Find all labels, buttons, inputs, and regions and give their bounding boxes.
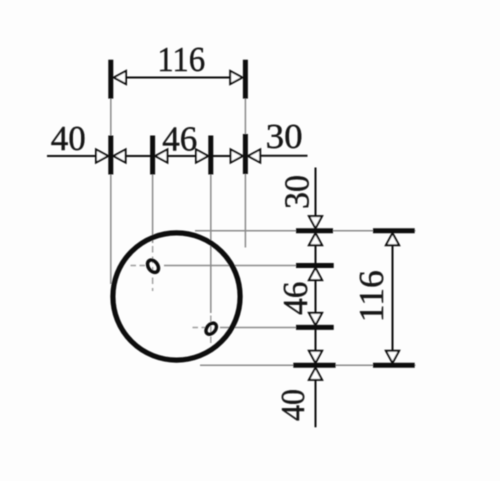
wire t3 to 30 arrow: [212, 155, 231, 157]
dim line v116: [392, 245, 394, 350]
svg-text:40: 40: [275, 389, 312, 421]
tick t1: [108, 136, 113, 175]
circle (main outline): [113, 233, 240, 360]
arrow down at tv4: [309, 351, 322, 363]
arrow v40 up at tv4: [309, 368, 322, 380]
tick t3: [208, 136, 213, 175]
arrow at t1 right: [113, 149, 125, 162]
leader v40 dim: [315, 380, 317, 427]
tick v116 top: [373, 228, 415, 233]
arrow 40 at t1 left: [96, 149, 108, 162]
arrow up at tv1: [309, 233, 322, 245]
extension line t2 down to hole1: [152, 174, 154, 243]
arrow right of 116 dim: [230, 71, 242, 84]
tick tv4: [293, 363, 335, 368]
arrow v30 down at tv1: [309, 216, 322, 228]
tick t4: [243, 134, 248, 174]
centerline left of hole1: [131, 265, 147, 267]
svg-text:116: 116: [353, 270, 391, 322]
arrow left of 116 dim: [114, 71, 126, 84]
leader 40 dim: [47, 155, 97, 157]
svg-text:116: 116: [157, 41, 205, 79]
centerline t2 through hole1: [152, 246, 154, 291]
tick top-right (116 dim): [243, 60, 248, 99]
dim line 116 top: [126, 77, 230, 79]
leader v30 dim: [315, 168, 317, 217]
wire tv3 to v40 arrow: [315, 329, 317, 352]
dim line 46: [167, 155, 196, 157]
wire tv1 arrow to tv2: [315, 245, 317, 264]
tick v116 bottom: [373, 363, 415, 368]
extension line circle bottom to right ticks: [200, 364, 416, 366]
tick tv1: [296, 228, 333, 233]
extension line hole1 to right ticks: [164, 265, 334, 267]
centerline left of hole2: [193, 327, 206, 329]
extension line left column t1: [110, 99, 112, 285]
arrow v46 down at tv3: [309, 313, 322, 325]
arrow 46 at t3: [196, 149, 208, 162]
svg-text:30: 30: [279, 175, 317, 209]
leader 30 dim: [260, 155, 307, 157]
tick tv3: [296, 325, 334, 330]
svg-text:40: 40: [51, 120, 86, 158]
extension line t3 down to hole2: [210, 174, 212, 313]
hole H2: [204, 321, 219, 336]
arrow at t4 right: [248, 149, 260, 162]
extension line circle top to right ticks: [195, 230, 416, 232]
tick t2: [150, 136, 155, 175]
hole H1: [145, 258, 161, 275]
extension line right column t4: [244, 99, 246, 248]
tick tv2: [296, 263, 334, 268]
svg-text:46: 46: [162, 121, 197, 159]
tick top-left (116 dim): [108, 60, 113, 99]
svg-text:46: 46: [277, 282, 315, 315]
arrow v46 up at tv2: [309, 268, 322, 280]
wire t1 arrow to t2: [126, 155, 152, 157]
centerline t3 through hole2: [210, 316, 212, 346]
arrow v116 down: [386, 351, 399, 363]
arrow 46 at t2: [155, 149, 167, 162]
arrow v116 up: [386, 233, 399, 245]
extension line hole2 to right ticks: [220, 327, 334, 329]
svg-text:30: 30: [266, 118, 303, 156]
arrow 30 at t4 left: [231, 149, 243, 162]
dim line v46: [315, 280, 317, 313]
